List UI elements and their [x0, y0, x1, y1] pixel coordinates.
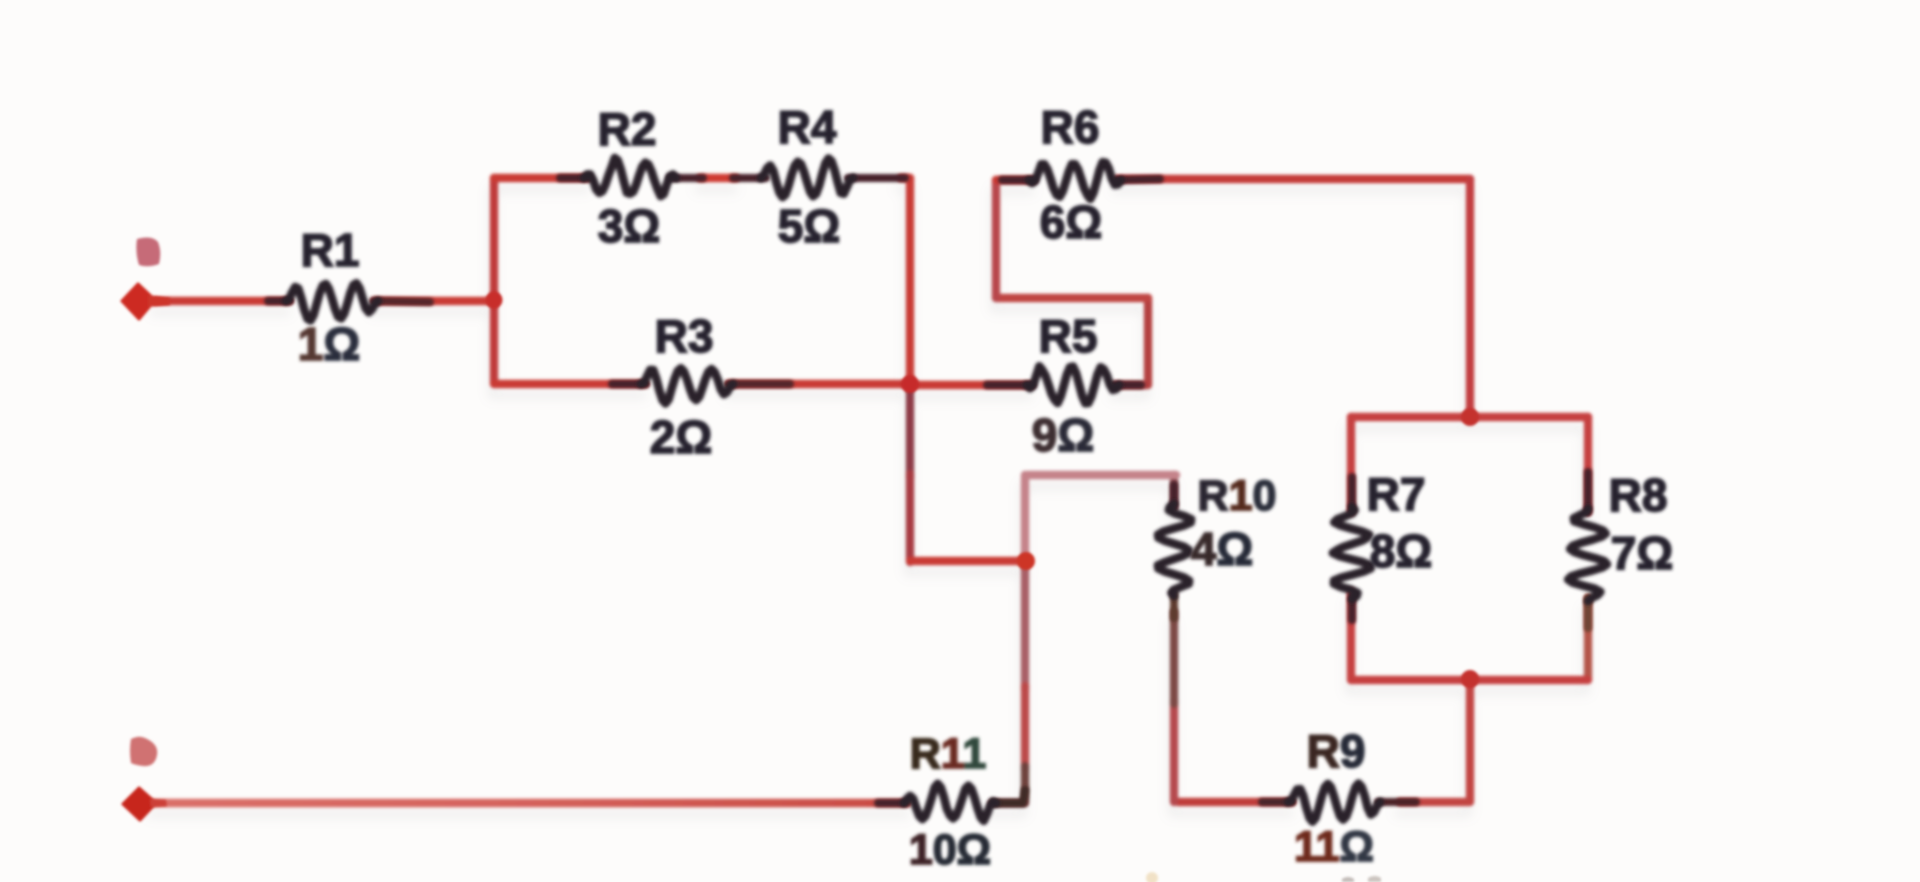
wire box top	[1351, 413, 1588, 421]
node A junction	[486, 292, 503, 309]
wire right vertical maroon	[906, 386, 914, 478]
svg-text:4Ω: 4Ω	[1191, 523, 1253, 575]
svg-text:10Ω: 10Ω	[909, 826, 991, 874]
svg-text:R7: R7	[1367, 468, 1426, 520]
node C junction	[1017, 552, 1035, 570]
wire a to R1	[156, 297, 289, 305]
resistor R9 zigzag	[1288, 784, 1380, 822]
wire R6 left corner	[996, 176, 1033, 184]
wire R10 top lead	[1170, 475, 1178, 508]
svg-text:8Ω: 8Ω	[1370, 525, 1432, 577]
wire node B to R5	[912, 381, 1031, 389]
svg-text:6Ω: 6Ω	[1040, 196, 1102, 248]
lead R6 left	[1002, 176, 1034, 184]
lead R4 left	[733, 174, 766, 182]
lead R8 top	[1584, 472, 1592, 512]
bottom edge artifact 2	[1368, 876, 1381, 882]
lead R11 left	[878, 799, 906, 807]
wire junction C down upper	[1021, 559, 1029, 690]
lead R1 left	[268, 297, 290, 305]
lead R6 right	[1116, 179, 1160, 180]
resistor R7 zigzag	[1333, 507, 1371, 599]
wire junction C down lower	[1021, 686, 1029, 770]
box bottom junction	[1461, 670, 1479, 688]
wire R5 loop to R6	[992, 180, 1000, 298]
wire far right vertical	[1466, 179, 1474, 417]
lead R3 right	[728, 380, 790, 388]
wire junction C down foot	[1021, 766, 1029, 800]
resistor R5 zigzag	[1027, 366, 1119, 403]
box top junction	[1461, 408, 1479, 426]
wire R9 left lead	[1178, 798, 1292, 806]
wire box right bottom	[1584, 598, 1592, 680]
svg-text:7Ω: 7Ω	[1611, 527, 1673, 579]
lead R7 bottom	[1348, 596, 1356, 620]
lead R2 left	[560, 174, 589, 182]
wire box left bottom	[1347, 592, 1355, 680]
svg-text:3Ω: 3Ω	[598, 200, 660, 252]
svg-text:R10: R10	[1198, 472, 1277, 520]
wire R2 to R4	[700, 174, 736, 182]
wire node B to junction C	[910, 557, 1027, 565]
lead R11 right	[994, 790, 1025, 803]
svg-text:R3: R3	[655, 310, 714, 362]
wire R10 bottom vertical	[1170, 700, 1178, 802]
lead R1 right	[373, 301, 430, 302]
wire R4 to top right corner	[901, 174, 910, 182]
lead R10 top	[1170, 485, 1178, 507]
lead R5 left	[987, 381, 1032, 389]
wire R10 branch top	[1028, 471, 1176, 479]
lead R4 right	[848, 174, 905, 182]
svg-text:R8: R8	[1609, 469, 1668, 521]
resistor R6 zigzag	[1029, 162, 1121, 199]
svg-text:11Ω: 11Ω	[1294, 823, 1374, 871]
svg-text:5Ω: 5Ω	[778, 200, 840, 252]
lead R7 top	[1348, 477, 1356, 510]
resistor R10 zigzag	[1158, 504, 1191, 596]
bottom edge artifact 3	[1146, 872, 1158, 882]
node B junction	[901, 375, 919, 393]
svg-text:R1: R1	[301, 224, 360, 276]
lead R8 bottom	[1584, 598, 1592, 628]
svg-text:R9: R9	[1307, 725, 1366, 777]
wire right vertical upper	[906, 178, 914, 388]
wire box right top	[1584, 417, 1592, 512]
resistor R2 zigzag	[584, 158, 676, 196]
lead R9 right	[1378, 798, 1416, 806]
svg-text:2Ω: 2Ω	[650, 411, 712, 463]
wire R5 right lead up	[1115, 298, 1148, 385]
terminal a marker	[122, 284, 155, 319]
bottom edge artifact 1	[1342, 877, 1354, 882]
wire R11 to corner	[992, 799, 1025, 807]
wire b to R11	[153, 799, 908, 807]
wire node A to R3	[494, 380, 645, 388]
lead R2 right	[670, 174, 703, 182]
svg-text:9Ω: 9Ω	[1032, 409, 1094, 461]
svg-text:R6: R6	[1041, 101, 1100, 153]
wire R5 loop top	[996, 294, 1148, 302]
resistor R11 zigzag	[904, 784, 996, 821]
lead R3 left	[612, 380, 646, 388]
wire node A vertical	[490, 178, 498, 384]
resistor R8 zigzag	[1568, 509, 1607, 601]
wire R6 to far right	[1117, 175, 1470, 183]
wire box left top	[1347, 417, 1355, 512]
label a (blurred blob)	[136, 238, 160, 267]
svg-text:1Ω: 1Ω	[298, 318, 360, 370]
svg-text:R4: R4	[778, 101, 837, 153]
wire node A to R2	[494, 174, 588, 182]
label b (blurred blob)	[130, 737, 157, 766]
lead R5 right	[1114, 381, 1141, 389]
svg-text:R11: R11	[910, 730, 987, 778]
svg-text:R2: R2	[598, 103, 657, 155]
wire junction C up	[1021, 475, 1029, 563]
lead R9 left	[1262, 798, 1292, 806]
resistor R4 zigzag	[761, 159, 853, 198]
terminal b marker	[123, 788, 156, 820]
wire R10 mid vertical	[1170, 612, 1178, 704]
lead R10 bottom	[1170, 593, 1178, 618]
resistor R3 zigzag	[641, 368, 733, 403]
svg-text:R5: R5	[1039, 310, 1098, 362]
wire right vertical lower	[906, 474, 914, 562]
wire R3 to node B	[729, 380, 912, 388]
wire box bottom	[1351, 676, 1588, 684]
wire box to R9 corner	[1400, 680, 1470, 802]
resistor R1 zigzag	[286, 283, 378, 320]
wire R1 to node A	[375, 297, 494, 305]
